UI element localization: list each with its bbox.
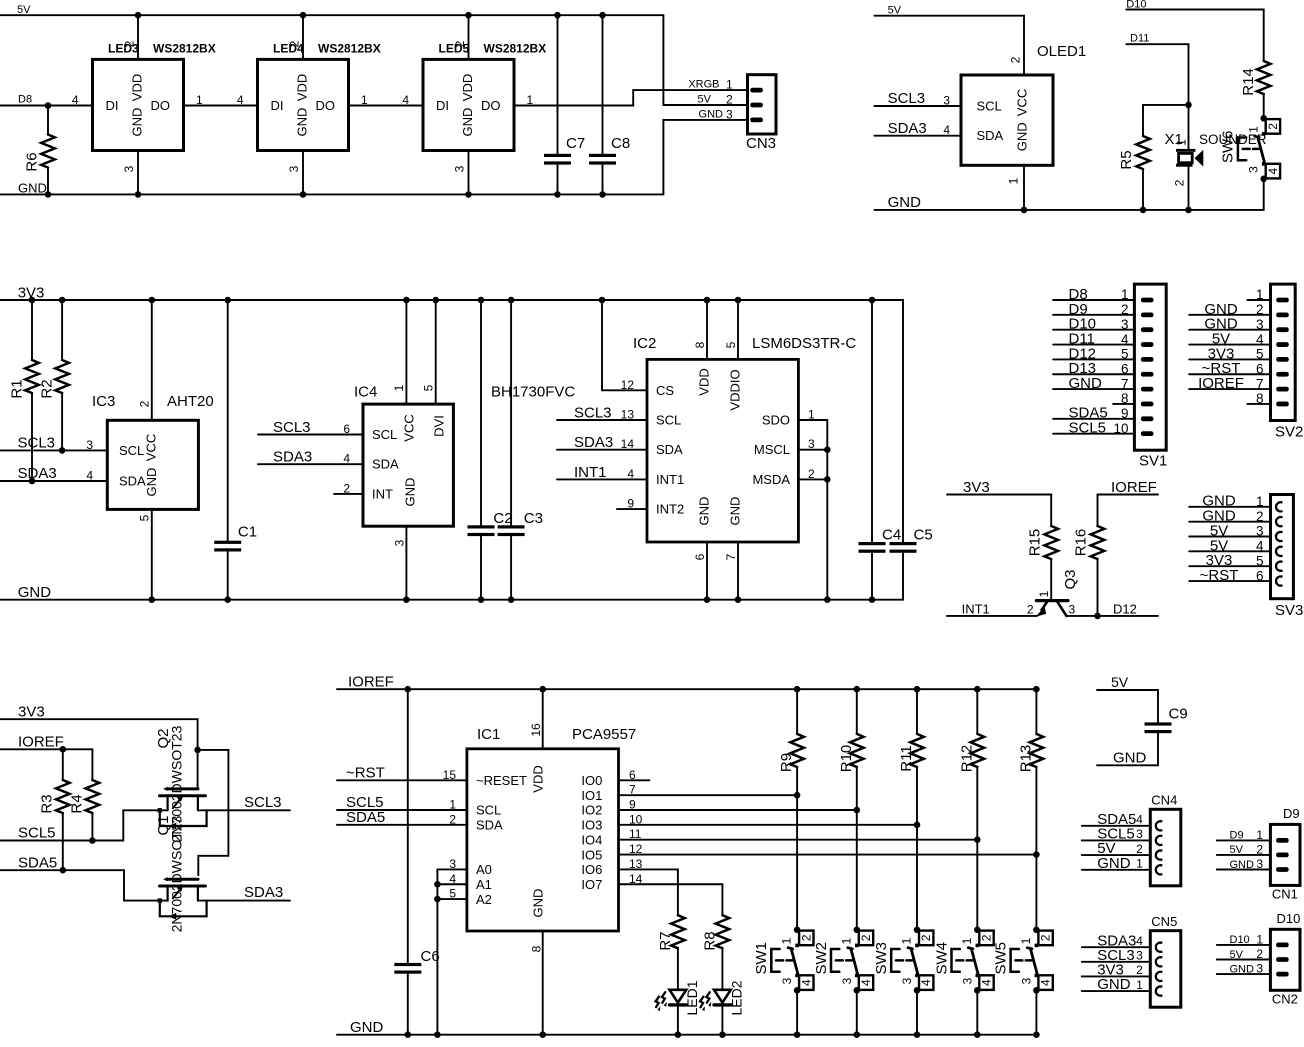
svg-text:DVI: DVI xyxy=(431,415,446,437)
wire SV2 pin 4 xyxy=(1189,344,1270,346)
junction bottom of SW4 xyxy=(974,987,981,994)
svg-text:1: 1 xyxy=(1136,978,1143,992)
junction IO4/R12 xyxy=(974,836,981,843)
switch SW3 lever xyxy=(908,948,918,975)
svg-text:3: 3 xyxy=(453,165,467,172)
svg-text:5V: 5V xyxy=(1230,844,1244,856)
svg-text:1: 1 xyxy=(1246,126,1260,133)
svg-text:DI: DI xyxy=(271,98,284,113)
svg-text:6: 6 xyxy=(1121,361,1129,376)
svg-text:BH1730FVC: BH1730FVC xyxy=(491,384,575,401)
svg-text:9: 9 xyxy=(627,497,634,511)
switch SW1 contacts xyxy=(795,944,799,948)
junction GND rail at LED4 xyxy=(300,191,307,198)
junction 3V3 at IC2 VDD xyxy=(704,297,711,304)
svg-text:CN4: CN4 xyxy=(1151,792,1177,807)
svg-text:VDD: VDD xyxy=(697,368,712,395)
wire SV2 pin 7 xyxy=(1189,388,1270,390)
wire SDA3 to IC2 xyxy=(557,449,647,451)
wire IC2 SDO down xyxy=(798,420,827,600)
junction bottom of SW3 xyxy=(914,987,921,994)
wire R15 to Q3 base xyxy=(1050,559,1052,599)
resistor R2 xyxy=(55,360,69,393)
svg-text:SV1: SV1 xyxy=(1139,453,1167,470)
wire C4 bottom xyxy=(871,553,873,600)
svg-text:CS: CS xyxy=(656,383,674,398)
resistor R8 xyxy=(716,915,730,948)
wire IO5 to R13 xyxy=(619,854,1037,856)
svg-text:2: 2 xyxy=(288,40,302,47)
wire IC3 VCC pin xyxy=(151,300,153,420)
svg-text:7: 7 xyxy=(724,553,738,560)
junction top of SW4 xyxy=(974,927,981,934)
wire SV1 pin 2 xyxy=(1053,314,1134,316)
switch SW1 bracket xyxy=(771,949,792,972)
svg-text:SCL3: SCL3 xyxy=(18,435,56,452)
svg-text:2: 2 xyxy=(1256,842,1263,856)
svg-text:SDA: SDA xyxy=(656,442,683,457)
svg-text:CN1: CN1 xyxy=(1272,887,1298,902)
wire SV3 pin 6 xyxy=(1189,580,1270,582)
svg-text:SDA3: SDA3 xyxy=(888,120,927,137)
svg-text:SCL3: SCL3 xyxy=(244,794,282,811)
wire 3V3 to R15 xyxy=(947,495,1051,527)
svg-text:5: 5 xyxy=(138,514,152,521)
switch SW6 contacts xyxy=(1262,132,1266,136)
svg-text:R2: R2 xyxy=(39,379,56,398)
svg-text:SCL: SCL xyxy=(372,427,397,442)
wire IC3 GND pin xyxy=(151,509,153,599)
pin box 4 of SW6 xyxy=(1266,164,1280,179)
pin box 4 of SW5 xyxy=(1038,975,1052,990)
svg-text:VDDIO: VDDIO xyxy=(728,369,743,410)
svg-text:2: 2 xyxy=(138,400,152,407)
svg-text:D12: D12 xyxy=(1113,601,1137,616)
svg-text:3: 3 xyxy=(1256,317,1264,332)
svg-text:INT1: INT1 xyxy=(962,601,990,616)
pin 3 of CN3 xyxy=(750,118,763,123)
wire VDD pin of LED4 xyxy=(302,15,304,59)
svg-text:INT1: INT1 xyxy=(574,464,607,481)
svg-text:SW1: SW1 xyxy=(753,942,770,975)
svg-text:GND: GND xyxy=(1015,122,1030,151)
wire R5 top link xyxy=(1143,104,1189,106)
junction GND at IC3 xyxy=(149,596,156,603)
wire C1 top xyxy=(227,300,229,541)
junction GND at IC2 pin7 xyxy=(735,596,742,603)
connector SV1 xyxy=(1134,284,1166,450)
pin 2 of SV2 xyxy=(1276,312,1289,317)
wire CN1 pin 2 xyxy=(1217,854,1271,856)
svg-text:SW5: SW5 xyxy=(992,942,1009,975)
svg-text:R9: R9 xyxy=(778,753,795,772)
resistor R7 xyxy=(671,915,685,948)
svg-text:16: 16 xyxy=(529,723,543,737)
svg-text:1: 1 xyxy=(808,408,815,422)
svg-text:7: 7 xyxy=(1121,376,1129,391)
resistor R14 xyxy=(1257,61,1271,94)
svg-text:4: 4 xyxy=(1136,934,1143,948)
svg-text:13: 13 xyxy=(621,408,635,422)
pin 2 of SV3 xyxy=(1276,517,1282,526)
pin 3 of CN2 xyxy=(1276,972,1289,977)
junction GND rail at LED3 xyxy=(135,191,142,198)
wire CN1 pin 3 xyxy=(1217,869,1271,871)
wire IC2 GND pin 7 xyxy=(737,542,739,600)
pin 1 of CN3 xyxy=(750,88,763,93)
switch SW5 lever xyxy=(1027,948,1037,975)
svg-text:4: 4 xyxy=(627,467,634,481)
junction 5V rail at LED3 xyxy=(135,12,142,19)
wire IO3 to R11 xyxy=(619,824,918,826)
junction 3V3 at IC3 xyxy=(149,297,156,304)
junction 5V rail at LED5 xyxy=(465,12,472,19)
svg-text:LSM6DS3TR-C: LSM6DS3TR-C xyxy=(752,335,856,352)
switch SW3 contacts xyxy=(915,944,919,948)
capacitor C5 xyxy=(890,542,917,545)
junction IOREF at R3 xyxy=(60,746,67,753)
wire C3 top xyxy=(510,300,512,525)
wire IO0 stub xyxy=(619,779,650,781)
svg-text:3: 3 xyxy=(1136,949,1143,963)
wire LED2 anode xyxy=(721,948,723,989)
pin 5 of SV1 xyxy=(1141,357,1154,362)
svg-text:3: 3 xyxy=(1256,962,1263,976)
svg-text:SDA5: SDA5 xyxy=(18,854,57,871)
wire GND at C9 xyxy=(1097,764,1158,766)
svg-text:GND: GND xyxy=(1069,375,1103,392)
svg-text:4: 4 xyxy=(1256,332,1264,347)
wire CN5 pin 4 xyxy=(1082,946,1151,948)
svg-text:MSCL: MSCL xyxy=(754,442,790,457)
ws2812 LED3 xyxy=(93,59,184,150)
pin 7 of SV1 xyxy=(1141,387,1154,392)
svg-text:4: 4 xyxy=(919,979,933,986)
svg-text:2N7002DWSOT23: 2N7002DWSOT23 xyxy=(169,815,185,932)
wire R9 to SW1 xyxy=(796,767,798,930)
svg-text:2: 2 xyxy=(123,40,137,47)
wire R2 top xyxy=(61,300,63,360)
junction GND at C3 xyxy=(508,596,515,603)
mosfet Q2 body loop xyxy=(160,810,207,826)
svg-text:2: 2 xyxy=(1256,947,1263,961)
pin 2 of CN3 xyxy=(750,103,763,108)
svg-text:SDA3: SDA3 xyxy=(18,465,57,482)
wire R16 top xyxy=(1097,495,1099,527)
capacitor C1 xyxy=(214,541,241,544)
resistor R1 xyxy=(25,360,39,393)
svg-text:1: 1 xyxy=(1256,287,1264,302)
svg-text:2: 2 xyxy=(1136,842,1143,856)
wire CN4 pin 1 xyxy=(1082,869,1151,871)
pin 2 of CN4 xyxy=(1156,851,1162,860)
svg-text:~RST: ~RST xyxy=(346,764,385,781)
svg-text:D11: D11 xyxy=(1130,33,1149,45)
svg-text:R12: R12 xyxy=(958,745,975,773)
io-expander IC1 PCA9557 xyxy=(467,749,619,931)
switch SW4 contacts xyxy=(976,944,980,948)
svg-text:SCL3: SCL3 xyxy=(273,419,311,436)
wire SV3 pin 4 xyxy=(1189,550,1270,552)
svg-text:1: 1 xyxy=(1256,494,1264,509)
svg-text:LED2: LED2 xyxy=(729,980,745,1015)
wire IOREF to R13 xyxy=(1035,689,1037,734)
wire IC2 GND pin 6 xyxy=(706,542,708,600)
svg-text:IOREF: IOREF xyxy=(18,734,64,751)
svg-text:1: 1 xyxy=(392,384,406,391)
svg-text:2: 2 xyxy=(859,934,873,941)
pin 5 of SV3 xyxy=(1276,562,1282,571)
junction IOREF at R9 xyxy=(794,686,801,693)
wire C7 bottom xyxy=(557,165,559,195)
switch SW4 bracket xyxy=(952,949,973,972)
svg-text:2: 2 xyxy=(453,40,467,47)
pin box 4 of SW1 xyxy=(799,975,813,990)
pin 7 of SV2 xyxy=(1276,387,1289,392)
svg-text:2: 2 xyxy=(449,812,456,826)
wire IOREF to R12 xyxy=(976,689,978,734)
svg-text:3: 3 xyxy=(449,857,456,871)
svg-text:3: 3 xyxy=(780,977,794,984)
svg-text:IOREF: IOREF xyxy=(1198,375,1244,392)
junction 3V3 at R2 xyxy=(59,297,66,304)
junction GND at C6 xyxy=(405,1031,412,1038)
wire CN5 pin 2 xyxy=(1082,975,1151,977)
svg-text:1: 1 xyxy=(780,937,794,944)
pin 5 of SV2 xyxy=(1276,357,1289,362)
svg-text:1: 1 xyxy=(1256,932,1263,946)
svg-text:1: 1 xyxy=(1037,590,1051,597)
svg-text:IO5: IO5 xyxy=(581,847,602,862)
junction 3V3 at IC4 DVI xyxy=(432,297,439,304)
svg-text:SDA3: SDA3 xyxy=(244,884,283,901)
wire IOREF to R10 xyxy=(856,689,858,734)
wire C6 top xyxy=(407,689,409,963)
svg-text:C9: C9 xyxy=(1169,706,1188,723)
svg-text:3: 3 xyxy=(1069,602,1076,616)
svg-text:GND: GND xyxy=(18,584,52,601)
wire SV3 pin 3 xyxy=(1189,536,1270,538)
switch SW2 bracket xyxy=(831,949,852,972)
junction GND at SDO line xyxy=(824,596,831,603)
wire GND mid rail xyxy=(0,553,903,600)
svg-text:GND: GND xyxy=(1230,859,1255,871)
svg-text:2: 2 xyxy=(799,934,813,941)
junction 3V3 at R1 xyxy=(29,297,36,304)
junction top of SW5 xyxy=(1033,927,1040,934)
svg-text:2: 2 xyxy=(1173,179,1187,186)
junction SDA5 at R3 xyxy=(60,867,67,874)
svg-text:SDA3: SDA3 xyxy=(273,449,312,466)
svg-text:~RST: ~RST xyxy=(1200,567,1239,584)
svg-text:3: 3 xyxy=(393,539,407,546)
junction MSDA xyxy=(824,476,831,483)
junction 5V rail at C7 xyxy=(554,12,561,19)
pin 4 of SV2 xyxy=(1276,342,1289,347)
capacitor C8 xyxy=(589,154,616,157)
pin 1 of CN5 xyxy=(1156,986,1162,995)
svg-text:R4: R4 xyxy=(69,794,86,813)
svg-text:3V3: 3V3 xyxy=(18,703,45,720)
wire GND pin of LED5 xyxy=(468,151,470,195)
wire R11 to SW3 xyxy=(916,767,918,930)
pin box 4 of SW3 xyxy=(919,975,933,990)
svg-text:5: 5 xyxy=(724,341,738,348)
wire D11 to X1 xyxy=(1126,44,1188,149)
svg-text:VCC: VCC xyxy=(402,414,417,441)
svg-text:1: 1 xyxy=(449,798,456,812)
svg-text:IO0: IO0 xyxy=(581,773,602,788)
svg-text:2: 2 xyxy=(1027,602,1034,616)
wire R1 bottom xyxy=(31,393,33,481)
connector CN5 xyxy=(1150,931,1181,1008)
svg-text:C5: C5 xyxy=(914,527,933,544)
wire IC4 VCC pin xyxy=(405,300,407,404)
svg-text:WS2812BX: WS2812BX xyxy=(153,41,216,55)
junction SCL5 at R4 xyxy=(89,837,96,844)
svg-text:GND: GND xyxy=(1230,963,1255,975)
svg-text:6: 6 xyxy=(1256,361,1264,376)
svg-text:DO: DO xyxy=(151,98,171,113)
svg-text:6: 6 xyxy=(343,422,350,436)
svg-text:VDD: VDD xyxy=(129,74,144,101)
svg-text:C1: C1 xyxy=(238,523,257,540)
junction GND rail at C8 xyxy=(599,191,606,198)
svg-text:SDA3: SDA3 xyxy=(574,434,613,451)
wire LED1 cathode xyxy=(677,1005,679,1035)
svg-text:2: 2 xyxy=(980,934,994,941)
svg-text:SCL5: SCL5 xyxy=(18,825,56,842)
svg-text:VDD: VDD xyxy=(294,74,309,101)
switch SW4 lever xyxy=(968,948,978,975)
svg-text:SW6: SW6 xyxy=(1220,131,1237,164)
svg-text:DO: DO xyxy=(481,98,501,113)
svg-text:C4: C4 xyxy=(882,527,901,544)
capacitor C2 xyxy=(468,525,495,528)
junction 3V3 at C3 xyxy=(508,297,515,304)
svg-text:9: 9 xyxy=(1121,406,1129,421)
junction 3V3 at IC2 VDDIO xyxy=(735,297,742,304)
svg-text:R11: R11 xyxy=(898,745,915,771)
junction D8/R6 xyxy=(45,102,52,109)
svg-text:Q3: Q3 xyxy=(1062,569,1079,589)
wire R13 to SW5 xyxy=(1035,767,1037,930)
wire 3V3 to IC2 CS xyxy=(602,300,647,390)
ws2812 LED4 xyxy=(258,59,349,150)
pin box 2 of SW1 xyxy=(799,931,813,946)
junction IO2/R10 xyxy=(854,807,861,814)
svg-text:IO7: IO7 xyxy=(581,877,602,892)
wire GND top rail xyxy=(0,120,748,194)
svg-text:DO: DO xyxy=(316,98,336,113)
junction 3V3 at C4 xyxy=(869,297,876,304)
svg-text:A1: A1 xyxy=(476,877,492,892)
svg-text:2: 2 xyxy=(1009,56,1023,63)
resistor R6 xyxy=(41,135,55,168)
svg-text:GND: GND xyxy=(144,468,159,497)
svg-text:SV2: SV2 xyxy=(1275,424,1303,441)
resistor R9 xyxy=(790,734,804,767)
junction IOREF at C6 xyxy=(405,686,412,693)
svg-text:R14: R14 xyxy=(1240,68,1257,96)
pin 9 of SV1 xyxy=(1141,416,1154,421)
transistor Q3 xyxy=(1036,599,1068,602)
junction 3V3 branch to Q1 xyxy=(194,747,201,754)
svg-text:1: 1 xyxy=(1007,177,1021,184)
switch SW5 contacts xyxy=(1035,944,1039,948)
led LED2 xyxy=(714,990,731,1003)
svg-text:GND: GND xyxy=(294,108,309,137)
svg-text:WS2812BX: WS2812BX xyxy=(318,41,381,55)
wire SV2 pin 5 xyxy=(1189,358,1270,360)
pin 6 of SV2 xyxy=(1276,372,1289,377)
svg-text:5: 5 xyxy=(1256,553,1264,568)
junction GND at R5 xyxy=(1140,207,1147,214)
wire 5V to C9 xyxy=(1097,690,1158,722)
wire CN4 pin 2 xyxy=(1082,854,1151,856)
wire SV1 pin 5 xyxy=(1053,358,1134,360)
wire R5 upper xyxy=(1142,105,1144,136)
svg-text:3: 3 xyxy=(900,977,914,984)
svg-text:IC1: IC1 xyxy=(477,726,500,743)
svg-text:1: 1 xyxy=(1175,139,1189,146)
wire 5V top rail xyxy=(0,15,748,105)
pin 2 of CN2 xyxy=(1276,957,1289,962)
svg-text:3: 3 xyxy=(1256,857,1263,871)
junction GND at SW5 xyxy=(1033,1031,1040,1038)
svg-text:4: 4 xyxy=(86,469,93,483)
svg-text:6: 6 xyxy=(1256,568,1264,583)
junction IOREF at R11 xyxy=(914,686,921,693)
svg-text:SCL5: SCL5 xyxy=(1069,420,1107,437)
wire SDA5 to IC1 xyxy=(337,824,467,826)
wire CN2 pin 3 xyxy=(1217,973,1271,975)
resistor R10 xyxy=(850,734,864,767)
wire 5V to OLED VCC xyxy=(874,16,1024,75)
svg-text:7: 7 xyxy=(1256,376,1264,391)
pin 2 of CN5 xyxy=(1156,972,1162,981)
wire C1 bottom xyxy=(227,552,229,600)
svg-text:3: 3 xyxy=(808,437,815,451)
svg-text:1: 1 xyxy=(900,937,914,944)
svg-text:3: 3 xyxy=(840,977,854,984)
svg-text:15: 15 xyxy=(443,768,457,782)
svg-text:R16: R16 xyxy=(1073,529,1090,557)
led LED1 light arrows xyxy=(662,992,665,1003)
switch SW2 contacts xyxy=(855,944,859,948)
svg-text:SCL: SCL xyxy=(977,98,1002,113)
svg-text:WS2812BX: WS2812BX xyxy=(484,41,547,55)
pin box 4 of SW2 xyxy=(859,975,873,990)
svg-text:R3: R3 xyxy=(39,794,56,813)
svg-text:DI: DI xyxy=(106,98,119,113)
wire SV1 pin 9 xyxy=(1053,418,1134,420)
wire R16 to D12 xyxy=(1097,559,1099,616)
junction IOREF at R12 xyxy=(974,686,981,693)
wire R5 lower xyxy=(1142,169,1144,210)
svg-text:1: 1 xyxy=(1121,287,1129,302)
svg-text:DI: DI xyxy=(436,98,449,113)
pin box 2 of SW6 xyxy=(1266,119,1280,134)
pin 1 of SV2 xyxy=(1276,298,1289,303)
wire D10 to R14 xyxy=(1126,10,1263,62)
svg-text:VCC: VCC xyxy=(1015,89,1030,116)
pin 2 of SV1 xyxy=(1141,312,1154,317)
wire C8 bottom xyxy=(602,165,604,195)
resistor R3 xyxy=(56,780,70,813)
svg-text:SDA5: SDA5 xyxy=(346,809,385,826)
svg-text:GND: GND xyxy=(697,497,712,526)
